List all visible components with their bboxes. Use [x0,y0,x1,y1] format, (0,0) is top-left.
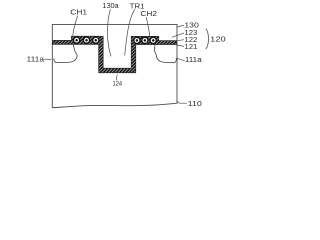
leader 124 [116,75,117,81]
charge CH1 ball 2 [83,37,89,43]
svg-text:124: 124 [113,81,123,88]
svg-text:CH2: CH2 [140,9,157,18]
svg-text:111a: 111a [185,55,202,64]
gate electrode 130 / substrate 110 outline [52,24,177,107]
leader 111a right [177,58,184,61]
svg-text:130a: 130a [102,1,118,10]
leader 130 [177,25,184,27]
leader 122 [174,40,184,42]
junction region 111a right curve [155,44,177,62]
leader 121 [174,44,184,46]
svg-text:120: 120 [210,34,225,43]
charge CH1 ball 1 [74,37,80,43]
charge CH1 ball 3 [93,37,99,43]
leader 111a left [45,58,52,60]
junction region 111a left curve [54,44,77,62]
charge CH2 ball 2 [142,37,148,43]
leader 130a [107,9,111,56]
leader CH2 [146,17,149,36]
leader CH1 [73,16,78,36]
svg-text:111a: 111a [27,55,45,64]
leader TR1 [125,9,135,55]
leader 110 [177,101,187,103]
svg-text:110: 110 [188,99,202,108]
gate stack 120 (121/122/123) hatched liner with trench [52,36,176,73]
charge CH2 ball 3 [150,37,156,43]
svg-text:CH1: CH1 [70,8,87,17]
leader 123 [172,33,184,37]
charge CH2 ball 1 [134,37,140,43]
svg-text:121: 121 [184,42,197,51]
brace for 120 [206,29,209,49]
